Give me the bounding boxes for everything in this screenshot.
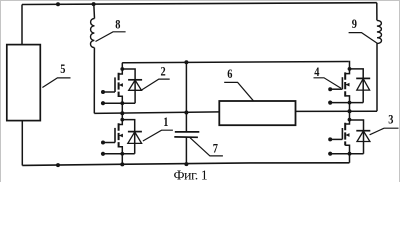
node: T2 source junction: [120, 101, 124, 105]
transistor 2 (upper left switch): [101, 63, 142, 113]
T4 channel bar: [344, 72, 346, 96]
T3 diode triangle: [357, 131, 370, 142]
node: capacitor branch on midrail: [184, 111, 188, 115]
wire: right midpoint rail: [296, 110, 378, 112]
svg-text:5: 5: [60, 62, 65, 76]
T3 diode cathode bar: [356, 130, 370, 132]
T1 diode top branch: [122, 120, 134, 154]
node: T2 drain-diode junction: [120, 67, 124, 71]
capacitor 7 top plate: [175, 131, 200, 133]
wire: inductor 9 top lead: [376, 3, 378, 21]
T1 return wire: [103, 153, 135, 155]
node: T1 source to bottom rail: [120, 162, 124, 166]
leader for label 5: [42, 78, 70, 88]
svg-text:7: 7: [213, 141, 218, 155]
T2 source lead: [119, 96, 123, 113]
leader for label 2: [142, 79, 170, 90]
node: junction of inductor 8 with top rail: [92, 2, 96, 6]
block 6 (control block): [219, 101, 295, 125]
transistor 1 (lower left switch): [101, 113, 142, 166]
T1 gate terminal dot: [101, 141, 105, 145]
T1 gate lead: [103, 142, 115, 144]
svg-text:4: 4: [314, 65, 319, 79]
svg-text:3: 3: [388, 112, 393, 126]
T2 diode cathode bar: [128, 79, 142, 81]
T4 body arrow: [346, 84, 349, 86]
svg-text:6: 6: [227, 67, 232, 81]
T2 gate terminal dot: [101, 90, 105, 94]
leader for label 3: [370, 128, 399, 135]
T4 drain lead: [345, 62, 349, 74]
leader for label 8: [96, 32, 126, 42]
T3 source lead: [345, 145, 349, 163]
wire: box 5 top lead: [21, 5, 23, 45]
leader for label 9: [349, 33, 378, 44]
svg-text:1: 1: [163, 115, 168, 129]
inductor 9 coil: [377, 20, 382, 43]
node: capacitor 7 to bottom rail: [184, 162, 188, 166]
svg-text:2: 2: [161, 65, 166, 79]
T4 return wire: [330, 102, 363, 104]
T3 channel bar: [344, 123, 346, 146]
leader for label 7: [190, 138, 223, 156]
T1 diode cathode bar: [128, 131, 142, 133]
T4 diode top branch: [350, 69, 364, 103]
capacitor 7 bottom lead: [185, 137, 187, 164]
T3 diode top branch: [350, 120, 364, 154]
wire: bottom rail: [22, 163, 349, 166]
node: T1 source junction: [120, 152, 124, 156]
svg-text:8: 8: [115, 17, 120, 31]
node: T4 drain-diode junction: [348, 67, 352, 71]
transistor 4 (upper right switch): [328, 62, 370, 112]
wire: bridge top rail: [122, 62, 348, 63]
node: T3 source junction: [348, 152, 352, 156]
T1 return terminal dot: [101, 152, 105, 156]
leader for label 6: [224, 82, 253, 100]
node: T2 source / T1 drain midpoint: [120, 111, 124, 115]
T4 gate bar: [341, 77, 343, 89]
wire: middle vertical (bridge top to midrail): [185, 62, 187, 112]
node: T4 source junction: [348, 101, 352, 105]
wire: inductor 8 to left bridge midpoint: [93, 48, 95, 114]
inductor 8 coil: [91, 19, 95, 48]
inductor 8 (top lead): [93, 4, 96, 18]
T1 gate bar: [114, 128, 116, 143]
T3 return wire: [330, 153, 363, 155]
T2 diode top branch: [122, 69, 135, 103]
T2 return wire: [103, 102, 135, 104]
svg-text:Фиг. 1: Фиг. 1: [174, 169, 208, 183]
T2 drain lead: [119, 63, 123, 74]
capacitor 7 bottom plate: [174, 136, 198, 138]
capacitor 7 top lead: [185, 113, 187, 132]
T4 diode cathode bar: [356, 77, 370, 79]
T2 gate bar: [114, 77, 116, 92]
T2 gate lead: [103, 91, 115, 93]
T2 return terminal dot: [101, 101, 105, 105]
T3 gate lead: [330, 138, 342, 140]
T4 diode triangle: [357, 79, 370, 90]
T3 return terminal dot: [328, 152, 332, 156]
T4 source lead: [345, 96, 349, 111]
node: T1 drain-diode junction: [120, 118, 124, 122]
T3 gate terminal dot: [328, 137, 332, 141]
T1 source lead: [119, 147, 123, 165]
T3 drain lead: [345, 111, 349, 124]
T2 diode triangle: [129, 80, 142, 90]
wire: inductor 9 lower lead: [376, 44, 378, 112]
leader for label 1: [143, 130, 173, 141]
block 5 (source block): [7, 45, 41, 121]
T3 body arrow: [346, 134, 349, 136]
svg-text:9: 9: [352, 17, 357, 31]
T4 gate terminal dot: [328, 87, 332, 91]
wire: box 5 bottom lead: [21, 121, 23, 166]
node: T4 source / T3 drain midpoint: [348, 109, 352, 113]
T3 gate bar: [341, 128, 343, 139]
T4 gate lead: [330, 88, 342, 90]
wire: top rail: [22, 3, 377, 5]
T1 channel bar: [118, 123, 120, 147]
node: dot on top rail: [56, 2, 60, 6]
T4 return terminal dot: [328, 101, 332, 105]
T2 body arrow: [120, 84, 123, 86]
node: dot on bottom rail: [56, 163, 60, 167]
T1 drain lead: [119, 113, 123, 124]
T1 diode triangle: [128, 132, 142, 144]
leader for label 4: [314, 78, 342, 89]
node: middle vertical junction: [184, 60, 188, 64]
T2 channel bar: [118, 73, 120, 97]
transistor 3 (lower right switch): [328, 111, 370, 163]
T1 body arrow: [120, 135, 123, 137]
wire: left midpoint rail: [94, 112, 219, 114]
node: T3 drain-diode junction: [348, 118, 352, 122]
scan edge border: [1, 1, 400, 183]
